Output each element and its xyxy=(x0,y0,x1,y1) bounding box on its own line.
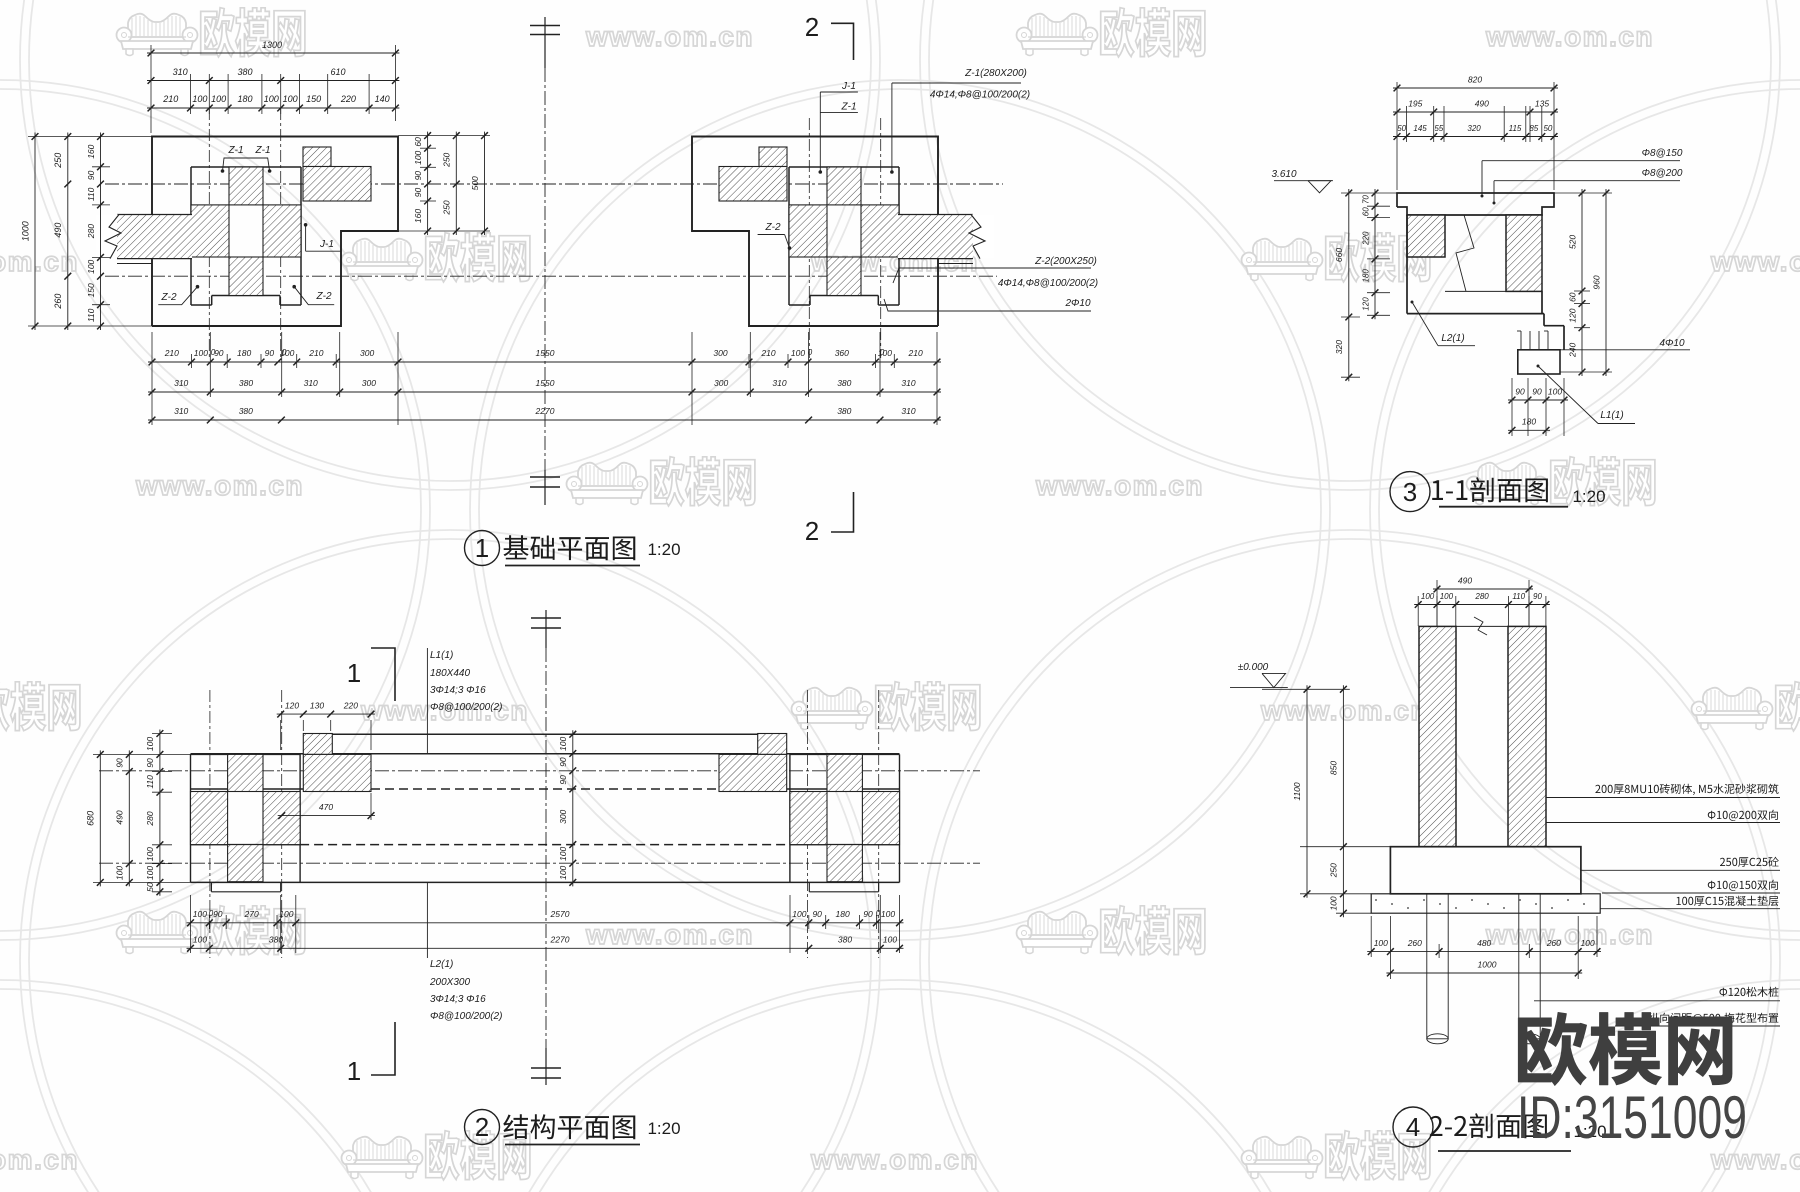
svg-text:1550: 1550 xyxy=(536,348,555,358)
svg-text:380: 380 xyxy=(239,406,253,416)
svg-text:100: 100 xyxy=(1581,938,1595,948)
break line in wall xyxy=(1456,215,1474,291)
svg-text:100: 100 xyxy=(558,865,568,879)
svg-text:Φ8@150: Φ8@150 xyxy=(1642,148,1683,159)
beam L piece xyxy=(303,734,332,755)
svg-text:100: 100 xyxy=(1548,387,1562,397)
svg-text:260: 260 xyxy=(1407,938,1422,948)
column hatch top xyxy=(229,167,263,205)
svg-text:680: 680 xyxy=(86,811,96,826)
svg-text:90: 90 xyxy=(86,170,96,180)
svg-text:0: 0 xyxy=(282,348,287,357)
outer foundation outline xyxy=(152,137,398,327)
column hatch xyxy=(827,754,862,791)
svg-text:100: 100 xyxy=(881,909,895,919)
svg-text:Z-2: Z-2 xyxy=(765,222,781,233)
svg-text:85: 85 xyxy=(1529,124,1538,133)
svg-text:260: 260 xyxy=(1546,938,1561,948)
svg-text:310: 310 xyxy=(901,406,915,416)
svg-text:210: 210 xyxy=(908,348,923,358)
svg-text:±0.000: ±0.000 xyxy=(1238,662,1269,673)
svg-text:960: 960 xyxy=(1592,275,1602,289)
svg-text:1000: 1000 xyxy=(21,221,31,241)
svg-text:145: 145 xyxy=(1413,124,1427,133)
svg-text:100: 100 xyxy=(1374,938,1388,948)
svg-text:300: 300 xyxy=(714,378,728,388)
svg-text:60: 60 xyxy=(1568,292,1578,302)
svg-text:380: 380 xyxy=(269,935,283,945)
left vertical chains xyxy=(34,133,36,331)
svg-text:195: 195 xyxy=(1408,99,1422,109)
svg-text:2270: 2270 xyxy=(550,935,570,945)
svg-text:Φ8@200: Φ8@200 xyxy=(1642,168,1683,179)
svg-text:50: 50 xyxy=(1543,124,1552,133)
svg-text:310: 310 xyxy=(173,67,188,77)
svg-text:Z-1(280X200): Z-1(280X200) xyxy=(964,68,1027,79)
view4: section 2-2 xyxy=(1230,576,1780,1152)
right vertical chains xyxy=(1581,189,1583,376)
svg-text:90: 90 xyxy=(145,758,155,768)
svg-text:220: 220 xyxy=(340,94,356,104)
svg-text:L1(1): L1(1) xyxy=(1600,410,1623,421)
svg-text:J-1: J-1 xyxy=(319,239,334,250)
svg-text:100: 100 xyxy=(1440,592,1454,601)
svg-text:0: 0 xyxy=(211,348,216,357)
svg-text:100: 100 xyxy=(145,737,155,751)
svg-text:110: 110 xyxy=(1512,592,1525,601)
svg-text:100: 100 xyxy=(279,909,293,919)
svg-text:210: 210 xyxy=(162,94,178,104)
svg-text:1: 1 xyxy=(475,533,489,563)
svg-text:120: 120 xyxy=(285,701,299,711)
L2 beam callout xyxy=(426,882,428,958)
svg-text:2270: 2270 xyxy=(535,406,555,416)
svg-text:180: 180 xyxy=(237,348,251,358)
svg-text:Z-1: Z-1 xyxy=(841,102,857,113)
svg-text:100: 100 xyxy=(413,150,423,164)
svg-text:150: 150 xyxy=(86,283,96,297)
inner pad outline xyxy=(191,166,301,168)
svg-text:310: 310 xyxy=(772,378,786,388)
svg-text:220: 220 xyxy=(343,701,358,711)
svg-text:Z-2: Z-2 xyxy=(316,291,332,302)
L1 beam callout xyxy=(426,648,428,754)
svg-text:180: 180 xyxy=(836,909,850,919)
svg-text:360: 360 xyxy=(835,348,849,358)
svg-text:110: 110 xyxy=(86,187,96,201)
svg-text:200X300: 200X300 xyxy=(429,977,470,988)
wall stub hatch xyxy=(898,215,973,259)
svg-text:310: 310 xyxy=(174,378,188,388)
svg-text:100: 100 xyxy=(115,866,125,880)
svg-text:1300: 1300 xyxy=(262,40,282,50)
rebar stubs xyxy=(1520,331,1522,350)
piles xyxy=(1427,894,1448,1039)
center axis xyxy=(544,17,546,68)
svg-text:2: 2 xyxy=(805,516,819,546)
long horizontals xyxy=(303,733,759,735)
svg-text:90: 90 xyxy=(1532,387,1542,397)
dim 470 xyxy=(278,815,375,817)
svg-text:L2(1): L2(1) xyxy=(1441,333,1464,344)
ground slab xyxy=(1371,894,1600,913)
center axis xyxy=(545,610,547,648)
svg-text:Z-1: Z-1 xyxy=(255,145,271,156)
svg-text:160: 160 xyxy=(413,209,423,223)
svg-text:100: 100 xyxy=(145,847,155,861)
svg-text:120: 120 xyxy=(1362,297,1371,311)
svg-text:260: 260 xyxy=(53,294,63,310)
svg-text:100: 100 xyxy=(192,94,207,104)
svg-text:100: 100 xyxy=(791,348,805,358)
box outline xyxy=(899,754,901,882)
svg-text:310: 310 xyxy=(174,406,188,416)
view1 title xyxy=(465,531,500,566)
svg-text:1100: 1100 xyxy=(1292,782,1302,801)
svg-text:3: 3 xyxy=(1403,477,1417,507)
svg-text:490: 490 xyxy=(53,223,63,238)
svg-text:520: 520 xyxy=(1568,235,1578,249)
svg-text:L1(1): L1(1) xyxy=(430,650,453,661)
svg-text:90: 90 xyxy=(558,775,568,785)
svg-text:150: 150 xyxy=(306,94,321,104)
svg-text:2Φ10: 2Φ10 xyxy=(1064,298,1090,309)
svg-text:100: 100 xyxy=(86,259,96,273)
svg-text:60: 60 xyxy=(413,137,423,147)
svg-text:1: 1 xyxy=(347,1056,361,1086)
svg-text:2: 2 xyxy=(805,12,819,42)
svg-text:180: 180 xyxy=(1522,417,1536,427)
svg-text:310: 310 xyxy=(304,378,318,388)
top dim chains xyxy=(147,52,399,54)
wall hatches xyxy=(1419,626,1456,846)
svg-text:ID:3151009: ID:3151009 xyxy=(1517,1084,1747,1151)
bottom dims xyxy=(1508,399,1568,401)
box outline xyxy=(190,754,192,882)
svg-text:Z-1: Z-1 xyxy=(228,145,244,156)
svg-text:320: 320 xyxy=(1467,124,1481,133)
svg-text:50: 50 xyxy=(145,882,155,892)
svg-text:140: 140 xyxy=(375,94,390,104)
svg-text:90: 90 xyxy=(413,171,423,181)
svg-text:110: 110 xyxy=(145,775,155,789)
view3: section 1-1 xyxy=(1271,75,1690,512)
svg-text:270: 270 xyxy=(244,909,259,919)
svg-text:3Φ14;3 Φ16: 3Φ14;3 Φ16 xyxy=(430,994,486,1005)
svg-text:100: 100 xyxy=(145,866,155,880)
svg-text:380: 380 xyxy=(838,935,852,945)
svg-text:300: 300 xyxy=(362,378,376,388)
svg-text:0: 0 xyxy=(880,348,885,357)
view1: foundation plan xyxy=(21,12,1099,566)
svg-text:55: 55 xyxy=(1434,124,1443,133)
svg-text:470: 470 xyxy=(319,802,333,812)
svg-text:115: 115 xyxy=(1509,124,1522,133)
svg-text:300: 300 xyxy=(558,809,568,823)
column hatch bottom xyxy=(827,257,861,296)
svg-text:660: 660 xyxy=(1334,248,1344,262)
svg-text:500: 500 xyxy=(470,176,480,190)
pile cap rect xyxy=(1518,350,1560,374)
svg-text:2570: 2570 xyxy=(550,909,570,919)
svg-text:490: 490 xyxy=(115,810,125,824)
svg-text:320: 320 xyxy=(1334,340,1344,354)
svg-text:1:20: 1:20 xyxy=(1572,487,1605,506)
left vertical chains xyxy=(1348,189,1350,381)
svg-text:100: 100 xyxy=(193,935,207,945)
svg-text:280: 280 xyxy=(145,811,155,826)
svg-text:210: 210 xyxy=(164,348,179,358)
svg-text:50: 50 xyxy=(1397,124,1406,133)
svg-text:100: 100 xyxy=(211,94,226,104)
svg-text:160: 160 xyxy=(86,144,96,158)
svg-text:4: 4 xyxy=(1406,1112,1420,1142)
svg-text:90: 90 xyxy=(115,758,125,768)
view3 title xyxy=(1390,472,1430,512)
inner pad outline xyxy=(789,166,899,168)
svg-text:1550: 1550 xyxy=(536,378,555,388)
svg-text:90: 90 xyxy=(1533,592,1542,601)
svg-text:J-1: J-1 xyxy=(841,81,856,92)
axes verticals xyxy=(209,690,211,958)
svg-text:100: 100 xyxy=(792,909,806,919)
bottom chains xyxy=(187,922,904,924)
svg-text:180: 180 xyxy=(237,94,252,104)
svg-text:Φ8@100/200(2): Φ8@100/200(2) xyxy=(430,1011,502,1022)
svg-text:90: 90 xyxy=(863,909,873,919)
svg-text:610: 610 xyxy=(330,67,345,77)
mini vertical chains xyxy=(427,132,429,235)
svg-text:100: 100 xyxy=(883,935,897,945)
L piece hatch xyxy=(759,147,787,167)
big watermark logo xyxy=(1518,1012,1732,1085)
footing outline xyxy=(1406,215,1408,314)
svg-text:120: 120 xyxy=(1568,308,1578,322)
svg-text:60: 60 xyxy=(1362,207,1371,216)
svg-text:90: 90 xyxy=(214,348,224,358)
top chain 120-130-220 xyxy=(277,713,375,715)
top dims xyxy=(1433,588,1533,590)
outer foundation outline xyxy=(692,137,938,327)
svg-text:90: 90 xyxy=(1515,387,1525,397)
svg-text:210: 210 xyxy=(308,348,323,358)
right callouts xyxy=(1595,784,1778,795)
top break xyxy=(1456,625,1508,627)
svg-text:180: 180 xyxy=(1362,269,1371,283)
svg-text:100: 100 xyxy=(1421,592,1435,601)
wall stub hatch xyxy=(117,215,192,259)
wall hatch left xyxy=(1407,215,1445,257)
view4 title xyxy=(1393,1107,1433,1147)
svg-text:100: 100 xyxy=(283,94,298,104)
slab outline xyxy=(1397,193,1554,215)
left chains xyxy=(99,750,101,886)
svg-text:3Φ14;3 Φ16: 3Φ14;3 Φ16 xyxy=(430,685,486,696)
svg-text:820: 820 xyxy=(1468,75,1482,85)
svg-text:4Φ10: 4Φ10 xyxy=(1659,338,1684,349)
flank hatch left xyxy=(191,205,229,257)
flank hatch right xyxy=(789,205,827,257)
view2: structure plan xyxy=(86,610,981,1145)
pedestal xyxy=(1390,847,1581,894)
svg-text:90: 90 xyxy=(213,909,223,919)
svg-text:250: 250 xyxy=(442,200,452,215)
horizontal axes xyxy=(105,183,1003,185)
column hatch bottom xyxy=(229,257,263,296)
svg-text:380: 380 xyxy=(237,67,252,77)
svg-text:Z-2(200X250): Z-2(200X250) xyxy=(1034,256,1097,267)
svg-text:4Φ14,Φ8@100/200(2): 4Φ14,Φ8@100/200(2) xyxy=(930,90,1030,101)
svg-text:240: 240 xyxy=(1568,343,1578,358)
svg-text:380: 380 xyxy=(239,378,253,388)
bottom dim chains xyxy=(148,361,941,363)
svg-text:280: 280 xyxy=(1474,592,1489,601)
svg-text:1: 1 xyxy=(347,658,361,688)
svg-text:490: 490 xyxy=(1475,99,1489,109)
L piece hatch xyxy=(303,147,331,167)
svg-text:280: 280 xyxy=(86,224,96,239)
svg-text:90: 90 xyxy=(812,909,822,919)
grid axes verticals right assembly xyxy=(808,118,810,358)
flank hatch right xyxy=(263,205,301,257)
svg-text:Z-2: Z-2 xyxy=(161,292,177,303)
svg-text:90: 90 xyxy=(413,188,423,198)
flank hatches xyxy=(862,792,899,845)
svg-text:100: 100 xyxy=(264,94,279,104)
svg-text:300: 300 xyxy=(360,348,374,358)
flank hatches xyxy=(191,792,228,845)
svg-text:100: 100 xyxy=(1329,896,1339,910)
svg-text:1000: 1000 xyxy=(1478,960,1497,970)
svg-text:90: 90 xyxy=(558,757,568,767)
svg-text:1:20: 1:20 xyxy=(647,540,680,559)
svg-text:L2(1): L2(1) xyxy=(430,959,453,970)
svg-text:100: 100 xyxy=(558,737,568,751)
column hatch xyxy=(228,754,263,791)
svg-text:90: 90 xyxy=(265,348,275,358)
svg-text:220: 220 xyxy=(1362,231,1371,246)
svg-text:70: 70 xyxy=(1362,195,1371,204)
top dims xyxy=(1393,87,1558,89)
svg-text:850: 850 xyxy=(1329,761,1339,775)
column hatch top xyxy=(827,167,861,205)
grid axes verticals left assembly xyxy=(208,108,210,358)
svg-text:310: 310 xyxy=(901,378,915,388)
svg-text:130: 130 xyxy=(310,701,324,711)
svg-text:250: 250 xyxy=(1329,863,1339,878)
svg-text:250: 250 xyxy=(53,153,63,169)
svg-text:100: 100 xyxy=(558,847,568,861)
svg-text:380: 380 xyxy=(837,378,851,388)
svg-text:380: 380 xyxy=(837,406,851,416)
svg-text:210: 210 xyxy=(760,348,775,358)
svg-text:480: 480 xyxy=(1477,938,1491,948)
svg-text:180X440: 180X440 xyxy=(430,668,470,679)
wall hatch right xyxy=(1506,215,1542,291)
svg-text:1:20: 1:20 xyxy=(647,1119,680,1138)
svg-text:100: 100 xyxy=(193,909,207,919)
flank hatch left xyxy=(861,205,899,257)
center mini chain xyxy=(572,730,574,886)
svg-text:2: 2 xyxy=(475,1112,489,1142)
beam L piece xyxy=(758,734,787,755)
svg-text:490: 490 xyxy=(1458,576,1472,586)
svg-text:110: 110 xyxy=(86,308,96,322)
svg-text:4Φ14,Φ8@100/200(2): 4Φ14,Φ8@100/200(2) xyxy=(998,278,1098,289)
bottom chains xyxy=(1367,951,1601,953)
svg-text:3.610: 3.610 xyxy=(1271,169,1296,180)
svg-text:100: 100 xyxy=(194,348,208,358)
view2 title xyxy=(465,1110,500,1145)
svg-text:Φ8@100/200(2): Φ8@100/200(2) xyxy=(430,702,502,713)
left chains xyxy=(1342,685,1344,917)
svg-text:250: 250 xyxy=(442,152,452,167)
svg-text:300: 300 xyxy=(713,348,727,358)
